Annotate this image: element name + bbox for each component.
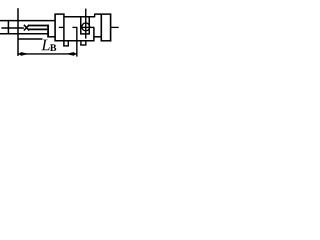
box1 bottom: [63, 45, 69, 47]
cap R1 top: [55, 13, 65, 15]
ball: [82, 23, 90, 31]
shaft stub centerline: [111, 26, 119, 28]
R5 top: [95, 13, 112, 15]
label L: [41, 40, 49, 51]
step right vertical: [94, 14, 96, 18]
top rail: [0, 20, 55, 22]
housing left face: [47, 25, 49, 38]
left centerline: [1, 27, 24, 29]
coupling X: [24, 25, 29, 31]
outer left wall: [54, 14, 56, 42]
slide bottom line: [18, 38, 43, 40]
bearing box right: [88, 16, 90, 34]
R5 left wall: [100, 14, 102, 42]
dimension line: [18, 53, 76, 55]
box2 right wall: [85, 41, 87, 46]
mid housing top: [64, 16, 95, 18]
cavity left wall and extension line: [76, 27, 78, 56]
box2 left wall: [80, 41, 82, 46]
flange bottom left: [47, 36, 55, 38]
screw top bar: [28, 25, 48, 27]
R5 right wall: [110, 14, 112, 42]
horizontal centerline dash 1: [59, 26, 64, 28]
tool post vertical: [7, 20, 9, 35]
box1 right wall: [67, 40, 69, 46]
tall extension line: [17, 8, 19, 56]
box2 bottom: [80, 44, 86, 46]
deep bottom line: [55, 40, 95, 42]
vertical centerline: [85, 9, 87, 39]
horizontal centerline dash 3: [81, 26, 94, 28]
cavity right wall: [93, 27, 95, 41]
cap R1 right wall: [63, 14, 65, 47]
screw bottom bar: [28, 28, 48, 30]
bottom rail: [0, 33, 48, 35]
right dimension arrow: [68, 52, 76, 56]
bearing box bottom: [80, 33, 90, 35]
bearing box left: [80, 16, 82, 34]
R5 bottom: [101, 40, 112, 42]
left dimension arrow: [18, 52, 26, 56]
horizontal centerline dash 2: [72, 26, 77, 28]
label B subscript: [50, 44, 56, 51]
flange bottom right: [93, 36, 101, 38]
